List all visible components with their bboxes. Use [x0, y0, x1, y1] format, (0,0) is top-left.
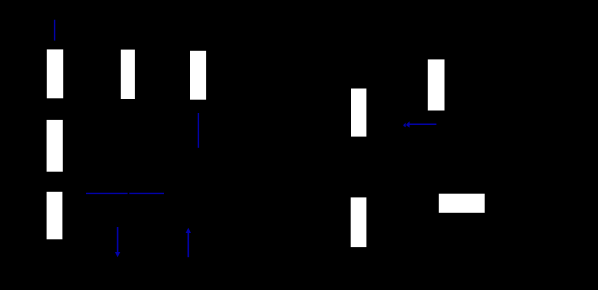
resistor R5 [190, 51, 206, 100]
current arrow I1 (downward) [115, 227, 120, 257]
resistor R1 [47, 49, 63, 98]
current arrow I2 (upward) [186, 228, 191, 258]
resistor R4 [121, 50, 135, 99]
wire (blue horizontal annotation, right part) [129, 192, 164, 194]
current arrow I3 (leftward) [403, 121, 436, 127]
wire (blue horizontal annotation, left part) [86, 192, 128, 194]
resistor R6 [351, 89, 366, 137]
resistor R8 [428, 59, 445, 110]
resistor R3 [47, 192, 63, 240]
resistor R9 [439, 194, 485, 213]
resistor R7 [351, 197, 367, 247]
resistor R2 [47, 120, 63, 172]
wire (blue annotation segment below R5) [197, 113, 199, 148]
wire (blue annotation segment above R1) [54, 20, 56, 41]
